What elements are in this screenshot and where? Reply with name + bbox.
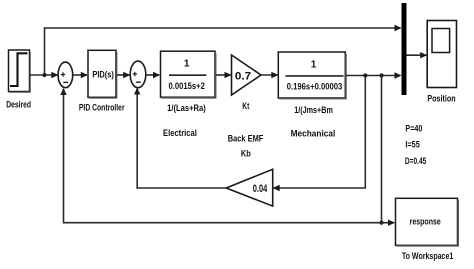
Mux bar <box>402 3 407 95</box>
wire mechanical TF output to Mux <box>346 75 400 77</box>
gain block Kt 0.7 <box>232 55 262 95</box>
svg-text:I=55: I=55 <box>405 139 420 150</box>
svg-text:To Workspace1: To Workspace1 <box>402 251 454 262</box>
summer S2 <box>130 61 146 88</box>
transfer function block 1/(0.0015s+2) electrical <box>161 51 216 98</box>
wire outer feedback from node B down to bottom rail <box>381 76 383 223</box>
svg-text:Mechanical: Mechanical <box>291 129 336 140</box>
transfer function block 1/(0.196s+0.00003) mechanical <box>278 52 346 99</box>
svg-text:Kb: Kb <box>241 149 251 160</box>
svg-text:Desired: Desired <box>6 100 31 111</box>
svg-text:1: 1 <box>184 59 190 70</box>
svg-text:0.7: 0.7 <box>235 70 251 82</box>
svg-text:1: 1 <box>311 59 317 70</box>
To Workspace block "response" <box>396 198 459 246</box>
svg-text:0.04: 0.04 <box>253 183 268 195</box>
wire Mux to Scope <box>407 54 427 56</box>
node junction C on bottom rail <box>379 221 383 225</box>
svg-text:0.196s+0.00003: 0.196s+0.00003 <box>287 81 343 92</box>
scope block Position <box>427 21 456 88</box>
wire electrical TF to gain Kt <box>216 74 231 76</box>
svg-text:1/(Las+Ra): 1/(Las+Ra) <box>167 103 206 114</box>
svg-text:Kt: Kt <box>242 101 250 112</box>
svg-text:P=40: P=40 <box>405 124 422 135</box>
wire inner feedback from node A down and left to gain Kb <box>274 76 366 189</box>
PID controller block U1 <box>88 50 117 98</box>
svg-text:Position: Position <box>427 94 455 105</box>
wire bottom rail left and up into summer S1 <box>64 89 382 223</box>
svg-text:0.0015s+2: 0.0015s+2 <box>169 81 205 92</box>
summer S1 <box>58 62 73 88</box>
wire gain Kt to mechanical TF <box>261 74 278 76</box>
wire step output to summer S1 <box>30 74 58 76</box>
step source block "Desired" <box>9 50 31 92</box>
svg-text:response: response <box>410 216 441 226</box>
svg-text:Back EMF: Back EMF <box>228 134 264 145</box>
node junction A (inner feedback tap) <box>363 73 367 77</box>
node junction on step output <box>42 73 46 77</box>
wire S2 to electrical TF <box>146 74 159 76</box>
wire bottom rail right into To Workspace block <box>382 222 395 224</box>
wire gain Kb output left and up into summer S2 <box>137 89 226 189</box>
svg-text:PID Controller: PID Controller <box>79 103 125 114</box>
wire PID to summer S2 <box>117 74 130 76</box>
svg-text:1/(Jms+Bm: 1/(Jms+Bm <box>294 105 333 116</box>
svg-text:Electrical: Electrical <box>163 128 197 139</box>
wire S1 to PID <box>73 74 87 76</box>
gain block Kb 0.04 <box>226 169 273 206</box>
svg-text:D=0.45: D=0.45 <box>405 156 427 167</box>
wire top branch to Mux <box>45 28 401 75</box>
node junction B (outer feedback tap) <box>379 73 383 77</box>
svg-text:PID(s): PID(s) <box>92 69 113 80</box>
